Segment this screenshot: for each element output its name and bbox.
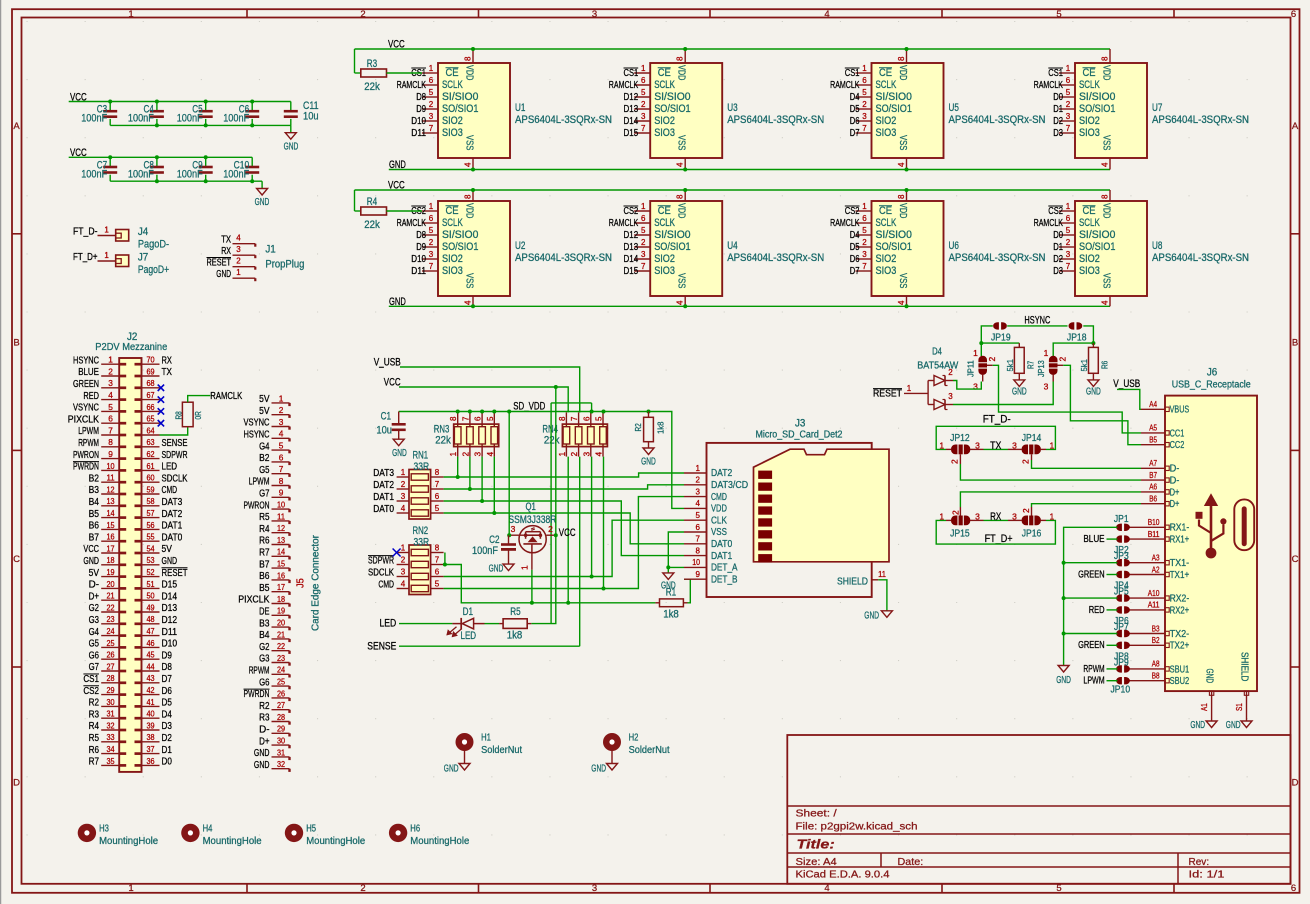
svg-text:64: 64 [146,425,154,435]
svg-text:JP13: JP13 [1036,360,1046,377]
svg-text:R5: R5 [510,606,520,618]
svg-text:RX2+: RX2+ [1170,605,1190,616]
svg-text:4: 4 [401,580,406,589]
svg-text:37: 37 [146,744,154,754]
svg-text:32: 32 [106,720,114,730]
svg-text:B3: B3 [259,618,270,629]
svg-text:PWRDN: PWRDN [244,689,270,700]
svg-text:RX1-: RX1- [1170,523,1190,534]
svg-text:PWRON: PWRON [244,500,270,511]
svg-text:LPWM: LPWM [78,426,99,437]
svg-text:R2: R2 [633,423,643,432]
svg-text:RX: RX [162,355,172,366]
svg-text:RAMCLK: RAMCLK [397,218,427,229]
svg-text:2: 2 [862,100,867,109]
svg-text:D2: D2 [162,733,173,744]
svg-text:4: 4 [464,300,473,305]
svg-text:5: 5 [641,226,646,235]
svg-text:CS1: CS1 [83,674,99,685]
svg-text:MountingHole: MountingHole [203,836,262,847]
svg-text:1: 1 [1066,64,1071,73]
svg-text:VDD: VDD [1101,65,1113,81]
svg-text:SDCLK: SDCLK [368,568,394,579]
svg-text:30: 30 [277,736,285,746]
svg-text:A: A [1292,121,1299,132]
svg-text:11: 11 [878,570,886,579]
svg-text:J7: J7 [138,252,148,264]
svg-text:D+: D+ [1170,487,1180,498]
svg-text:8: 8 [108,437,113,447]
svg-text:SIO3: SIO3 [442,127,463,139]
svg-text:D11: D11 [411,266,426,277]
svg-text:G2: G2 [89,603,100,614]
svg-text:J1: J1 [265,244,275,256]
svg-text:25: 25 [106,638,114,648]
svg-text:MountingHole: MountingHole [99,836,158,847]
svg-text:31: 31 [106,709,114,719]
svg-text:9: 9 [279,488,284,498]
svg-text:7: 7 [641,262,646,271]
svg-text:6: 6 [429,214,434,223]
svg-text:3: 3 [1066,112,1071,121]
svg-text:PWRDN: PWRDN [73,462,99,473]
svg-text:2: 2 [950,510,960,515]
svg-text:2: 2 [108,366,113,376]
svg-text:7: 7 [641,124,646,133]
svg-text:22k: 22k [364,219,380,231]
svg-text:5V: 5V [89,568,99,579]
svg-text:A5: A5 [1149,424,1157,433]
svg-text:D3: D3 [162,721,173,732]
svg-text:D12: D12 [624,92,639,103]
svg-text:SIO3: SIO3 [654,265,675,277]
svg-text:11: 11 [106,473,114,483]
svg-text:D3: D3 [1053,128,1063,139]
svg-text:2: 2 [401,480,406,489]
svg-text:2: 2 [548,524,553,534]
svg-text:D15: D15 [624,266,639,277]
svg-text:CC2: CC2 [1170,440,1185,451]
svg-text:D3: D3 [1053,266,1063,277]
svg-text:CE: CE [879,67,892,79]
svg-text:54: 54 [146,543,154,553]
svg-text:TX: TX [221,234,231,245]
svg-text:D13: D13 [624,104,639,115]
svg-text:Q1: Q1 [526,501,536,513]
svg-text:B4: B4 [259,630,270,641]
svg-text:24: 24 [106,626,114,636]
svg-text:GREEN: GREEN [1078,569,1105,580]
svg-text:6: 6 [435,492,440,501]
svg-text:D0: D0 [1053,230,1063,241]
svg-text:VCC: VCC [83,544,99,555]
svg-text:SolderNut: SolderNut [481,745,522,756]
svg-text:16: 16 [277,570,285,580]
svg-text:66: 66 [146,402,154,412]
svg-text:33R: 33R [414,461,430,473]
svg-text:B10: B10 [1148,518,1160,527]
svg-text:SIO2: SIO2 [876,253,897,265]
svg-text:15: 15 [106,520,114,530]
svg-text:SO/SIO1: SO/SIO1 [1079,103,1115,115]
svg-text:PIXCLK: PIXCLK [238,595,269,606]
svg-text:R4: R4 [89,721,100,732]
svg-text:D8: D8 [162,662,173,673]
svg-text:H5: H5 [306,824,316,835]
svg-text:17: 17 [277,582,285,592]
svg-text:D4: D4 [162,709,173,720]
svg-text:V_USB: V_USB [1113,378,1140,390]
svg-text:JP7: JP7 [1114,622,1129,633]
svg-text:SIO3: SIO3 [442,265,463,277]
svg-text:D-: D- [259,725,269,736]
svg-text:7: 7 [435,480,440,489]
svg-text:GND: GND [254,748,270,759]
svg-text:SIO2: SIO2 [1079,253,1100,265]
svg-text:44: 44 [146,661,154,671]
svg-text:3: 3 [862,250,867,259]
svg-text:4: 4 [676,300,685,305]
svg-text:C: C [1292,554,1299,565]
svg-text:RAMCLK: RAMCLK [609,80,639,91]
svg-text:3: 3 [236,245,241,254]
svg-text:DET_B: DET_B [711,574,738,585]
svg-text:19: 19 [106,567,114,577]
svg-text:SolderNut: SolderNut [629,745,670,756]
svg-text:13: 13 [106,496,114,506]
svg-text:SO/SIO1: SO/SIO1 [876,103,912,115]
svg-text:100nF: 100nF [177,113,203,125]
svg-text:CS1: CS1 [845,68,860,79]
svg-text:J5: J5 [296,578,307,588]
svg-text:VSS: VSS [1101,135,1113,150]
svg-text:D: D [1292,778,1299,789]
svg-text:100nF: 100nF [128,113,154,125]
svg-text:RED: RED [83,391,99,402]
svg-text:5: 5 [429,226,434,235]
svg-text:3: 3 [641,112,646,121]
svg-text:SCLK: SCLK [876,217,897,229]
svg-text:48: 48 [146,614,154,624]
svg-text:VDD: VDD [676,203,688,219]
svg-text:2: 2 [1066,238,1071,247]
svg-text:R2: R2 [89,698,100,709]
svg-text:2: 2 [641,100,646,109]
svg-text:8: 8 [435,468,440,477]
svg-text:B7: B7 [89,532,100,543]
svg-text:SBU1: SBU1 [1170,664,1190,675]
svg-text:SIO2: SIO2 [1079,115,1100,127]
svg-text:GND: GND [641,457,656,468]
svg-text:D1: D1 [463,606,473,618]
svg-text:36: 36 [146,756,154,766]
svg-text:USB_C_Receptacle: USB_C_Receptacle [1172,380,1251,391]
svg-text:GND: GND [216,269,231,280]
svg-text:TX1+: TX1+ [1170,570,1190,581]
svg-text:26: 26 [277,688,285,698]
svg-text:58: 58 [146,496,154,506]
svg-text:D7: D7 [162,674,173,685]
svg-text:10u: 10u [376,425,392,437]
svg-text:1: 1 [104,226,109,235]
svg-text:1: 1 [973,348,978,358]
svg-text:5V: 5V [259,406,269,417]
svg-text:0R: 0R [193,411,203,419]
svg-text:HSYNC: HSYNC [244,430,270,441]
svg-text:8: 8 [435,544,440,553]
svg-text:GND: GND [1086,386,1101,397]
svg-text:D10: D10 [162,639,178,650]
svg-text:APS6404L-3SQRx-SN: APS6404L-3SQRx-SN [515,252,612,264]
svg-text:8: 8 [1101,56,1110,61]
svg-text:6: 6 [1066,214,1071,223]
svg-text:SIO3: SIO3 [876,265,897,277]
svg-text:GND: GND [254,760,270,771]
svg-text:3: 3 [975,441,980,451]
svg-text:D12: D12 [162,615,178,626]
svg-text:CS1: CS1 [1048,68,1063,79]
svg-text:41: 41 [146,697,154,707]
svg-text:5: 5 [108,402,113,412]
svg-text:DAT1: DAT1 [373,492,394,503]
svg-text:JP9: JP9 [1114,658,1129,669]
svg-text:D10: D10 [411,254,426,265]
svg-text:7: 7 [570,416,579,421]
svg-text:D15: D15 [162,580,178,591]
svg-text:JP14: JP14 [1022,433,1042,444]
svg-text:29: 29 [106,685,114,695]
svg-text:3: 3 [511,524,516,534]
svg-text:59: 59 [146,484,154,494]
svg-text:B7: B7 [1149,471,1157,480]
svg-text:B7: B7 [259,559,270,570]
svg-text:D+: D+ [259,736,269,747]
svg-text:GND: GND [162,556,178,567]
svg-text:8: 8 [558,416,567,421]
svg-text:2: 2 [360,883,365,894]
svg-text:R6: R6 [89,745,100,756]
svg-text:6: 6 [696,523,701,532]
svg-text:RPWM: RPWM [78,438,99,449]
svg-text:3: 3 [279,417,284,427]
svg-text:SCLK: SCLK [1079,217,1100,229]
svg-text:1: 1 [401,468,406,477]
svg-text:CS2: CS2 [845,206,860,217]
svg-text:D0: D0 [162,757,173,768]
svg-text:6: 6 [429,76,434,85]
svg-text:H4: H4 [203,824,213,835]
svg-text:G5: G5 [89,639,100,650]
svg-text:43: 43 [146,673,154,683]
svg-text:7: 7 [108,425,113,435]
svg-text:GREEN: GREEN [73,379,99,390]
svg-text:D8: D8 [416,92,426,103]
svg-text:RX: RX [221,246,231,257]
svg-text:V_USB: V_USB [374,357,401,369]
svg-text:5: 5 [279,441,284,451]
svg-text:2: 2 [987,357,997,362]
svg-text:27: 27 [106,661,114,671]
svg-text:1: 1 [1050,512,1055,522]
svg-text:SENSE: SENSE [162,438,188,449]
svg-text:D-: D- [1170,476,1180,487]
svg-text:VSS: VSS [897,135,909,150]
svg-text:D13: D13 [624,242,639,253]
svg-text:22: 22 [106,602,114,612]
svg-text:3: 3 [474,451,483,456]
svg-text:B4: B4 [89,497,100,508]
svg-text:1k8: 1k8 [507,630,523,642]
svg-text:SIO3: SIO3 [1079,127,1100,139]
svg-text:JP11: JP11 [966,360,976,377]
svg-text:R8: R8 [173,411,183,420]
svg-text:5: 5 [435,580,440,589]
svg-text:6: 6 [474,416,483,421]
svg-text:B2: B2 [89,473,100,484]
svg-text:5: 5 [862,226,867,235]
svg-text:50: 50 [146,591,154,601]
svg-text:G7: G7 [259,489,270,500]
svg-text:7: 7 [429,124,434,133]
svg-text:CE: CE [446,205,459,217]
svg-text:G2: G2 [259,642,270,653]
svg-text:VSYNC: VSYNC [73,403,99,414]
svg-text:5: 5 [595,416,604,421]
svg-text:6: 6 [862,214,867,223]
svg-text:SI/SIO0: SI/SIO0 [442,91,479,103]
svg-text:7: 7 [862,262,867,271]
svg-text:4: 4 [236,234,241,243]
svg-text:FT_D-: FT_D- [73,227,98,238]
svg-text:APS6404L-3SQRx-SN: APS6404L-3SQRx-SN [949,114,1046,126]
svg-text:VDD: VDD [711,504,727,515]
svg-text:28: 28 [106,673,114,683]
svg-text:52: 52 [146,567,154,577]
svg-text:B: B [1292,338,1298,349]
svg-text:4: 4 [1101,300,1110,305]
svg-text:VDD: VDD [1101,203,1113,219]
svg-text:Date:: Date: [898,856,924,868]
svg-text:D-: D- [89,580,99,591]
svg-text:J4: J4 [138,226,148,238]
svg-text:7: 7 [279,464,284,474]
svg-text:D4: D4 [932,347,942,358]
svg-text:70: 70 [146,355,154,365]
svg-text:GND: GND [864,610,879,621]
svg-text:22k: 22k [435,434,451,446]
svg-text:27: 27 [277,700,285,710]
svg-text:5V: 5V [259,394,269,405]
svg-text:60: 60 [146,473,154,483]
svg-text:2: 2 [401,556,406,565]
svg-text:56: 56 [146,520,154,530]
svg-text:B5: B5 [259,583,270,594]
svg-text:SBU2: SBU2 [1170,676,1190,687]
svg-text:6: 6 [641,214,646,223]
svg-text:100nF: 100nF [128,169,154,181]
svg-text:6: 6 [108,414,113,424]
svg-text:3: 3 [401,492,406,501]
svg-text:3: 3 [429,250,434,259]
svg-text:2: 2 [461,451,470,456]
svg-text:B3: B3 [1152,624,1160,633]
svg-text:DAT2: DAT2 [162,509,183,520]
svg-text:3: 3 [862,112,867,121]
svg-text:D2: D2 [1053,116,1063,127]
svg-text:1: 1 [862,64,867,73]
svg-text:Micro_SD_Card_Det2: Micro_SD_Card_Det2 [756,430,843,441]
svg-text:GREEN: GREEN [1078,640,1105,651]
svg-text:A2: A2 [1152,565,1160,574]
svg-text:7: 7 [461,416,470,421]
svg-text:2: 2 [1066,100,1071,109]
svg-text:B5: B5 [1149,436,1157,445]
svg-text:P2DV Mezzanine: P2DV Mezzanine [95,342,167,353]
svg-text:R3: R3 [367,58,377,70]
svg-text:U4: U4 [727,240,737,252]
svg-text:49: 49 [146,602,154,612]
svg-text:SI/SIO0: SI/SIO0 [1079,91,1116,103]
svg-text:22: 22 [277,641,285,651]
svg-text:16: 16 [106,532,114,542]
svg-text:8: 8 [279,476,284,486]
svg-text:7: 7 [429,262,434,271]
svg-text:D7: D7 [850,266,860,277]
svg-text:100nF: 100nF [81,169,107,181]
svg-text:2: 2 [429,238,434,247]
svg-text:CMD: CMD [378,580,394,591]
svg-text:20: 20 [277,618,285,628]
svg-text:21: 21 [277,629,285,639]
svg-text:3: 3 [1012,441,1017,451]
svg-text:2: 2 [1021,459,1031,464]
svg-text:6: 6 [862,76,867,85]
svg-text:SO/SIO1: SO/SIO1 [442,241,478,253]
svg-text:35: 35 [106,756,114,766]
svg-text:SHIELD: SHIELD [837,577,868,588]
svg-text:5k1: 5k1 [1079,359,1089,372]
svg-text:69: 69 [146,366,154,376]
svg-text:8: 8 [897,194,906,199]
svg-text:2: 2 [950,459,960,464]
svg-text:U3: U3 [727,102,737,114]
svg-text:DAT3: DAT3 [162,497,183,508]
svg-text:3: 3 [1012,512,1017,522]
svg-text:23: 23 [106,614,114,624]
svg-text:HSYNC: HSYNC [1024,315,1050,327]
svg-text:A6: A6 [1149,483,1157,492]
svg-text:SI/SIO0: SI/SIO0 [1079,229,1116,241]
svg-text:C: C [13,554,20,565]
svg-text:D1: D1 [1053,104,1063,115]
svg-text:RAMCLK: RAMCLK [1034,80,1064,91]
svg-text:B8: B8 [1152,672,1160,681]
svg-text:RESET: RESET [162,568,189,579]
svg-text:2: 2 [236,257,241,266]
svg-text:SIO2: SIO2 [442,253,463,265]
svg-text:LED: LED [461,630,477,642]
svg-text:5: 5 [1066,88,1071,97]
svg-text:RX2-: RX2- [1170,594,1190,605]
svg-text:VSS: VSS [464,273,476,288]
svg-text:67: 67 [146,390,154,400]
svg-text:15: 15 [277,559,285,569]
svg-text:VCC: VCC [559,527,576,539]
svg-text:Size: A4: Size: A4 [796,856,837,868]
svg-text:40: 40 [146,709,154,719]
svg-text:GND: GND [1190,720,1205,731]
svg-text:RAMCLK: RAMCLK [830,80,860,91]
